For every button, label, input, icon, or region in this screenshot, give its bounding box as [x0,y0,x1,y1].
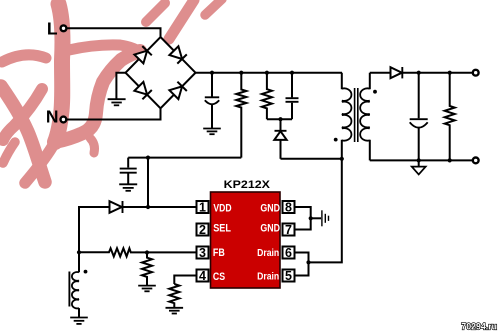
svg-text:CS: CS [213,271,225,283]
transformer T1 secondary winding [360,88,370,140]
node aux-fb [77,250,81,254]
wire output top rail [403,72,473,74]
capacitor C2 stem bottom [127,174,129,185]
svg-text:70294.ru: 70294.ru [461,321,497,331]
diode D5 snubber [280,119,282,130]
wire output bottom rail [370,159,473,161]
watermark stroke left diagonal [1,86,45,182]
ground G7 rotated [322,210,329,226]
op-amp U1 KP212X body [211,192,281,288]
diode D1 upper-left [134,51,147,64]
diode D7 output [391,67,402,78]
transformer T1 primary stem [341,73,343,159]
node outrail-R3 [448,71,452,75]
svg-text:2: 2 [199,223,206,237]
transformer T1 core [355,88,358,142]
resistor R5 FB divider [142,253,152,286]
wire VDD supply [128,157,241,159]
terminal output- [473,158,479,164]
transformer T1 primary winding [342,88,352,140]
capacitor C3 snubber [291,73,293,98]
resistor R1 startup [236,73,246,158]
svg-text:7: 7 [285,223,292,237]
ground G3 [119,184,137,191]
bridge rectifier diamond [126,37,196,108]
pin 8 square [283,201,295,215]
terminal output+ [473,70,479,76]
ground G6 [70,318,88,324]
watermark stroke checkmark arm [55,51,140,142]
node outrail-C4 [417,71,421,75]
svg-text:6: 6 [285,246,292,260]
wire FB [79,248,196,256]
diode D3 lower-left [134,82,147,95]
wire junction to VDD cap [147,158,149,207]
watermark stroke small finger [3,142,15,163]
inductor L1 core bar [68,272,70,307]
watermark stroke slash 3 [205,0,222,15]
node secondary phase dot [373,90,377,94]
wire VDD pin1 [123,206,196,208]
inductor L1 aux winding [72,272,79,308]
node outbottom-C4 [417,158,421,162]
node vdd-diode [146,205,150,209]
node gnd-pins [309,216,313,220]
wire aux to diode [79,207,110,272]
node drain-pins [306,260,310,264]
node rail-R2 [265,71,269,75]
pin 4 square [197,269,209,283]
watermark stroke left arc [2,55,46,62]
ground G4 [138,286,156,292]
svg-text:8: 8 [285,201,292,215]
ground output triangle [418,160,420,166]
capacitor C1 stem top [211,73,213,97]
svg-text:1: 1 [199,201,206,215]
diode D2 upper-right [169,46,182,59]
svg-text:GND: GND [260,202,280,214]
svg-text:N: N [46,106,59,126]
wire Drain pins [295,253,309,276]
node aux phase dot [84,270,88,274]
wire top rail [196,72,343,74]
ground G1 bridge [108,99,126,105]
svg-text:5: 5 [285,269,292,283]
pin 2 square [197,223,209,237]
resistor R6 CS [169,284,179,308]
watermark stroke left curve [3,89,42,140]
pin 1 square [197,201,209,215]
pin 3 square [197,246,209,260]
diode D4 lower-right [169,86,182,99]
terminal N [61,117,67,123]
capacitor C2 [120,169,137,173]
svg-text:3: 3 [199,246,206,260]
svg-text:Drain: Drain [257,272,279,283]
wire L input [67,28,161,38]
node fb-divider [145,250,149,254]
svg-text:FB: FB [213,247,225,259]
resistor R2 snubber [262,73,272,120]
wire GND pins [295,207,311,230]
wire secondary top [370,72,391,74]
ground G2 [203,129,221,135]
watermark stroke vertical tail [25,142,55,183]
watermark stroke slash 1 [146,3,165,22]
svg-text:Drain: Drain [257,248,279,259]
svg-text:L: L [47,18,58,38]
terminal L [61,25,67,31]
wire drain drop [309,159,342,263]
capacitor C2 stem [127,158,129,168]
wire snubber bottom [267,118,292,120]
node rail-C1 [210,71,214,75]
capacitor C4 output [418,73,420,119]
node vdd-cap [146,156,150,160]
watermark stroke main vertical [55,4,63,142]
node rail-C3 [290,71,294,75]
pin 6 square [283,246,295,260]
node rail-R1 [239,71,243,75]
svg-text:4: 4 [199,269,206,283]
WATERMARK [1,0,222,183]
wire to rotated ground [311,217,321,219]
node snubber-diode [278,117,282,121]
wire N input [67,108,161,120]
node primary phase dot [334,138,338,142]
capacitor C1 stem bottom [211,104,213,129]
watermark stroke slash 2 [169,0,194,39]
wire primary bottom [281,158,342,160]
resistor R3 load [445,73,455,161]
diode D6 vdd [110,201,122,213]
capacitor C1 [205,97,219,104]
pin 5 square [283,269,295,283]
svg-text:GND: GND [260,222,280,234]
node primary-bottom [340,157,344,161]
wire aux to ground [78,308,80,317]
pin 7 square [283,223,295,237]
wire CS [174,276,196,285]
ground G5 [166,308,184,314]
transformer T1 secondary stems [369,73,371,161]
svg-text:KP212X: KP212X [224,179,271,191]
watermark stroke top horizontal [69,45,140,52]
svg-text:SEL: SEL [213,222,231,234]
watermark stroke arm tail [90,138,95,153]
svg-text:VDD: VDD [213,202,231,214]
wire bridge negative to ground [116,73,125,99]
node outbottom-R3 [448,158,452,162]
